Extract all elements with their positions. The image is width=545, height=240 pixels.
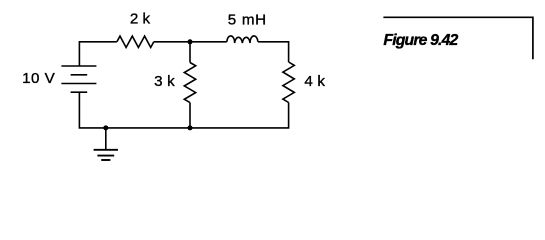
svg-text:2 k: 2 k <box>130 11 151 28</box>
svg-text:10 V: 10 V <box>22 70 56 87</box>
svg-text:Figure 9.42: Figure 9.42 <box>383 32 458 49</box>
svg-text:5 mH: 5 mH <box>228 12 267 29</box>
svg-text:3 k: 3 k <box>154 73 175 90</box>
svg-text:4 k: 4 k <box>304 73 325 90</box>
